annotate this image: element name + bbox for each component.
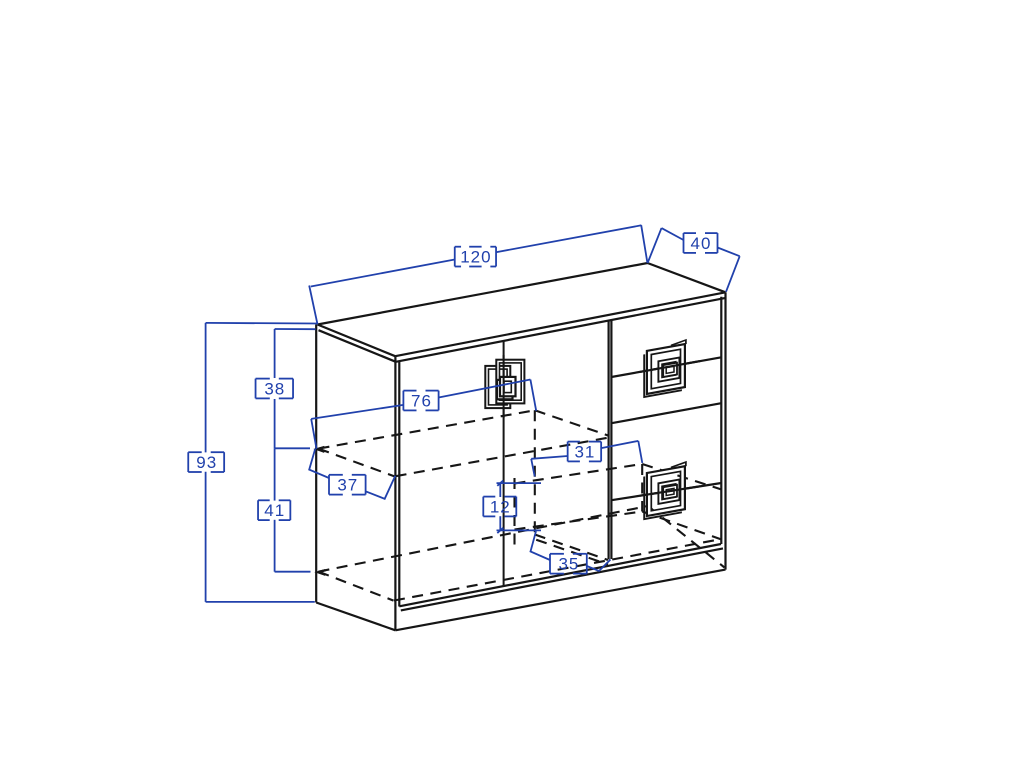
- dimension label [35] (dim35): [550, 554, 587, 574]
- hidden rail top right edge (depth): [642, 464, 721, 490]
- left door outer vertical edge: [398, 362, 400, 607]
- right front inner vertical edge: [720, 297, 722, 544]
- dimension 35: right leader: [587, 560, 611, 572]
- top panel thickness line, front face: [396, 298, 726, 362]
- dimension 38: vertical dimension line upper part: [274, 329, 276, 378]
- dimension 93: top extension line: [206, 322, 317, 325]
- hidden rail top back edge: [515, 464, 643, 484]
- hidden bottom board left end edge (left face): [319, 572, 394, 601]
- top panel thickness line, left face: [319, 330, 396, 362]
- dimension 12: tick bottom: [497, 528, 503, 533]
- dimension 76: dimension line right part: [439, 380, 531, 398]
- dimension 120: extension line at N corner: [641, 225, 647, 263]
- dimension label [31] (dim31): [568, 442, 602, 462]
- dimension label [12] (dim12): [483, 497, 516, 517]
- partition vertical edge (door side): [607, 321, 609, 560]
- hidden bottom board right end edge: [648, 506, 725, 568]
- dimension 12: top extension line: [497, 482, 542, 484]
- svg-text:120: 120: [460, 248, 491, 267]
- dimension 120: extension line at W corner: [309, 286, 317, 325]
- hidden shelf back edge: [319, 410, 535, 448]
- svg-text:38: 38: [264, 380, 285, 399]
- dimension label [41] (dim41): [258, 500, 290, 520]
- dimension label [37] (dim37): [329, 475, 366, 495]
- dimension 12: vertical dimension line lower part: [499, 516, 501, 530]
- dimension 41: vertical dimension line upper part: [274, 448, 276, 500]
- hidden shelf left end edge (left face): [319, 449, 395, 477]
- dimension 38: vertical dimension line lower part: [274, 399, 276, 448]
- dimension 38: bottom extension line: [275, 447, 310, 449]
- cabinet top back edge (W-N silhouette): [318, 263, 648, 325]
- dimension label [120] (dim120): [455, 247, 496, 267]
- right outer vertical edge E-Eb: [724, 292, 726, 569]
- hidden shelf right end edge: [535, 410, 609, 435]
- dimension label [93] (dim93): [188, 452, 224, 472]
- door handle (square, on door gap): [485, 360, 524, 408]
- drawer divider line 1 (through upper handle): [611, 357, 721, 377]
- hidden partition bottom edge 2: [536, 540, 608, 565]
- svg-text:12: 12: [490, 498, 511, 517]
- cabinet top right edge (N-E, depth): [648, 263, 726, 292]
- dimension 93: vertical dimension line lower part: [205, 472, 207, 602]
- dimension label [38] (dim38): [256, 379, 293, 399]
- dimension 93: bottom extension line: [206, 601, 315, 603]
- drawer divider line 3 (through lower handle): [611, 483, 721, 500]
- hidden rail bottom right edge (depth): [642, 512, 721, 540]
- hidden shelf front edge: [396, 438, 609, 477]
- svg-text:35: 35: [558, 555, 579, 574]
- upper drawer handle: [644, 340, 686, 397]
- dimension label [40] (dim40): [684, 233, 718, 253]
- dimension 40: dimension line left part: [662, 228, 684, 240]
- dimension 40: dimension line right part: [718, 248, 740, 257]
- dimension 31: right extension tick: [638, 441, 642, 463]
- dimension 76: dimension line left part: [311, 405, 403, 419]
- dimension 40: extension line at N corner: [648, 228, 662, 263]
- dimension 31: dimension line right part: [601, 441, 638, 448]
- lower drawer handle: [644, 462, 686, 519]
- dimension 31: dimension line left part: [531, 456, 568, 459]
- dimension 37: left tick: [309, 449, 329, 478]
- drawer divider line redrawn over upper drawer handle: [640, 361, 700, 372]
- dimension label [76] (dim76): [403, 391, 438, 411]
- svg-text:76: 76: [411, 392, 432, 411]
- front bottom silhouette Sb-Eb: [395, 570, 725, 631]
- cabinet top left edge (W-S, depth): [318, 325, 396, 357]
- dimension 93: vertical dimension line upper part: [205, 323, 207, 453]
- hidden rail back vertical edge (left): [513, 478, 515, 552]
- door gap line redrawn over handle: [503, 355, 505, 418]
- dimension 35: left extension tick: [531, 531, 551, 560]
- partition vertical edge (drawer side): [610, 320, 612, 559]
- hidden partition bottom edge 1: [535, 535, 608, 561]
- base/plinth top line 2: [401, 548, 723, 610]
- cabinet top front edge (S-E): [395, 292, 725, 356]
- hidden bottom board front edge: [394, 539, 722, 601]
- dimension 120: dimension line right part: [496, 225, 641, 252]
- dimension 76: right extension tick: [530, 380, 536, 411]
- left face bottom edge Wb-Sb: [316, 603, 395, 631]
- base/plinth top line 1: [399, 544, 721, 606]
- drawer divider line redrawn over lower drawer handle: [640, 486, 700, 495]
- svg-text:40: 40: [691, 234, 712, 253]
- dimension 120: dimension line left part: [311, 260, 455, 287]
- dimension 31: left extension tick: [531, 459, 535, 477]
- svg-text:93: 93: [196, 453, 217, 472]
- front-left carcass vertical edge: [394, 356, 396, 630]
- hidden bottom board back edge: [319, 506, 649, 572]
- svg-text:31: 31: [574, 443, 595, 462]
- svg-text:37: 37: [337, 476, 358, 495]
- dimension 12: tick top: [497, 480, 503, 485]
- dimension 38: top extension line: [275, 328, 316, 330]
- drawer divider line 2: [611, 403, 721, 423]
- dimension 76: left extension tick: [311, 419, 316, 449]
- dimension 12: vertical dimension line upper part: [499, 483, 501, 497]
- door gap vertical line: [503, 341, 505, 586]
- hidden partition back vertical edge: [534, 410, 536, 534]
- dimension 41: bottom extension line: [275, 571, 311, 573]
- arrowhead at shelf front-left corner: [317, 447, 324, 452]
- svg-text:41: 41: [264, 501, 285, 520]
- dimension 41: vertical dimension line lower part: [274, 520, 276, 572]
- dimension 40: extension line at E corner: [726, 256, 740, 292]
- hidden rail back vertical edge (right): [641, 464, 643, 512]
- left back vertical edge W-Wb: [315, 325, 317, 603]
- arrowhead at bottom board left corner: [318, 570, 325, 575]
- hidden rail bottom back edge: [515, 512, 643, 530]
- dimension 12: bottom extension line: [497, 529, 542, 531]
- dimension 37: right leader: [366, 476, 396, 499]
